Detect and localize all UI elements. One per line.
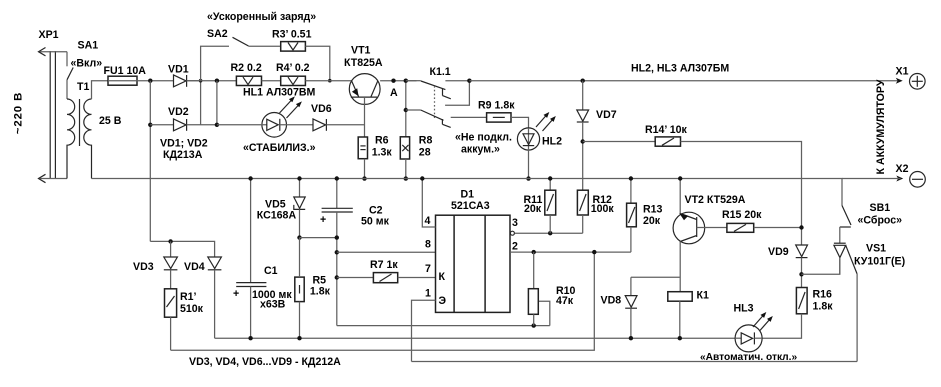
node pin4 on minus rail [420,176,424,180]
svg-text:HL2: HL2 [542,136,562,148]
svg-text:VT2 КТ529А: VT2 КТ529А [685,194,746,206]
svg-text:HL3: HL3 [734,303,754,315]
wire R14 row [583,141,656,143]
svg-text:VT1: VT1 [351,45,371,57]
wire pin 3 row [515,232,583,234]
node R10 top [532,250,536,254]
svg-text:VD3: VD3 [133,261,154,273]
svg-text:КД213А: КД213А [163,149,203,161]
node K1 bottom [678,336,682,340]
svg-text:100к: 100к [591,203,615,215]
svg-text:8: 8 [425,239,431,251]
svg-text:VD7: VD7 [596,109,617,121]
svg-text:1: 1 [425,288,431,300]
node C2 junction 237 [335,235,339,239]
relay contact K1.1 link dashed [434,86,436,118]
svg-text:VD1: VD1 [168,64,189,76]
wire link up to R10 wiper [538,301,550,325]
svg-text:SA2: SA2 [207,28,228,40]
node lower lever pivot [404,108,408,112]
resistor R15 [727,223,802,232]
svg-text:28: 28 [419,147,431,159]
resistor R14 prime [655,137,680,146]
svg-text:R8: R8 [419,135,433,147]
svg-text:47к: 47к [556,295,574,307]
svg-text:R2 0.2: R2 0.2 [231,62,262,74]
wire VT1 collector to node A [380,80,416,82]
svg-text:С1: С1 [264,265,278,277]
wire secondary top to fuse [92,81,109,99]
diode VD7 [577,81,589,191]
svg-text:R6: R6 [375,135,389,147]
connector XP1 plug lines [50,51,55,179]
capacitor C2 [322,179,353,326]
svg-text:50 мк: 50 мк [361,216,390,228]
diode VD4 [208,257,222,338]
diode VD1 [174,75,201,87]
LED HL3 [735,312,773,352]
resistor R9 [487,113,511,122]
wire R3 prime to rail [305,46,329,80]
svg-text:«Ускоренный заряд»: «Ускоренный заряд» [207,11,316,23]
node R7 junction [335,275,339,279]
wire R14 to right column [681,142,802,245]
node R13 top on minus rail [629,176,633,180]
diode VD2 [150,119,217,131]
resistor R3 prime [281,42,306,52]
resistor R10 trimmer [528,252,538,326]
svg-text:SB1: SB1 [870,202,891,214]
wire pin 1 [412,300,436,361]
node VD2 anode junction [148,123,152,127]
wire top rail to X1 [469,80,900,82]
resistor R11 [545,179,556,234]
wire fuse to rectifier node [137,80,174,82]
svg-text:1.3к: 1.3к [372,147,393,159]
resistor R8 [400,137,409,179]
svg-text:1.8к: 1.8к [310,286,331,298]
svg-text:VD6: VD6 [311,103,332,115]
wire gate rail to pin1 [412,361,858,363]
node HL1 riser top [215,79,219,83]
svg-text:R7 1к: R7 1к [370,259,398,271]
wire top rail VD1 to R2 [187,80,237,82]
svg-text:R13: R13 [643,204,663,216]
node HL2 to minus rail [526,176,530,180]
node VD5 top [297,176,301,180]
wire top mains lead with arrow [39,48,68,56]
relay coil K1 [668,292,692,302]
svg-text:D1: D1 [461,189,475,201]
resistor R2 [236,76,261,85]
node R11 bottom [548,231,552,235]
svg-text:~220 В: ~220 В [13,92,25,134]
LED HL1 [217,96,313,137]
wire VT2 base to R15 [697,227,727,229]
relay contact K1.1 upper [406,81,470,106]
node pin8 junction [335,250,339,254]
svg-text:HL1 АЛ307ВМ: HL1 АЛ307ВМ [243,87,315,99]
svg-text:VD3, VD4, VD6...VD9 - КД212А: VD3, VD4, VD6...VD9 - КД212А [189,356,341,368]
wire K1 to plus rail [679,301,681,338]
resistor R4 prime [281,76,306,85]
svg-text:«Не подкл.: «Не подкл. [455,132,512,144]
node HL1 branch on LED row [215,123,219,127]
wire bottom mains lead with arrow [39,174,68,182]
svg-text:КТ825А: КТ825А [344,57,383,69]
svg-text:7: 7 [425,263,431,275]
svg-text:А: А [390,87,398,99]
resistor R13 [627,179,637,253]
svg-text:R3’ 0.51: R3’ 0.51 [272,29,312,41]
svg-text:VS1: VS1 [866,243,886,255]
terminal X1 [896,74,925,90]
resistor R6 [358,137,367,179]
svg-text:510к: 510к [180,303,204,315]
pin 3 bubble [510,231,514,235]
wire pin 4 [422,179,435,228]
node VD3 branch [168,239,172,243]
node K1.1 lever pivot [404,79,408,83]
wire R7 row [337,277,374,279]
svg-text:VD4: VD4 [184,261,205,273]
wire R4 to VT1 emitter [305,80,351,82]
svg-text:4: 4 [425,215,431,227]
wire pin2 net bottom rail [171,252,595,350]
node C1 top on minus rail [248,176,252,180]
svg-text:R16: R16 [813,288,833,300]
diode VD6 [313,119,365,131]
capacitor C1 [236,179,266,339]
resistor R12 [577,190,588,233]
switch SB1 [840,206,851,244]
diode VD8 [625,277,680,338]
wire lower contact to R9 [451,116,487,118]
wire SA2 riser [201,46,229,80]
svg-text:2: 2 [512,241,518,253]
svg-text:х63В: х63В [260,299,286,311]
wire VS1 anode link [802,259,840,275]
transformer T1 primary winding [67,99,75,179]
node fuse/VD1/VD2 junction [148,79,152,83]
svg-text:SA1: SA1 [78,40,99,52]
svg-text:25 В: 25 В [99,115,122,127]
svg-text:ХР1: ХР1 [39,29,59,41]
thyristor VS1 [834,243,857,361]
node VD8 bottom [629,336,633,340]
node VS1 branch [799,272,803,276]
switch SA2 [233,37,281,46]
node R11 top on minus rail [548,176,552,180]
node A [391,79,395,83]
wire node A down to lower contact [405,81,407,137]
switch SA1 [67,52,73,99]
wire AC node vertical down to VD3/VD4 branch [149,81,151,242]
svg-text:R1’: R1’ [180,291,197,303]
transformer T1 secondary winding [84,99,92,179]
svg-text:К1.1: К1.1 [430,66,451,78]
resistor R7 [373,273,435,283]
fuse FU1 [108,76,137,85]
svg-text:К АККУМУЛЯТОРУ: К АККУМУЛЯТОРУ [875,79,887,174]
transistor VT2 [673,179,705,292]
comparator D1 box [436,215,511,312]
node R6 ground [362,176,366,180]
svg-text:VD8: VD8 [601,295,622,307]
svg-text:«Сброс»: «Сброс» [858,214,903,226]
diode VD9 [796,245,808,288]
wire R2 to R4 [262,80,281,82]
svg-text:Х1: Х1 [896,66,909,78]
wire pin 2 row [510,251,631,253]
svg-text:Х2: Х2 [896,163,909,175]
svg-text:КУ101Г(Е): КУ101Г(Е) [854,256,905,268]
svg-text:«СТАБИЛИЗ.»: «СТАБИЛИЗ.» [243,142,316,154]
node R5 bottom [297,336,301,340]
svg-text:521СА3: 521СА3 [451,200,490,212]
node VD5 bottom [297,235,301,239]
wire VD3 VD4 feed row [150,241,214,257]
svg-text:VD5: VD5 [265,198,286,210]
node VD7 R14 junction [581,139,585,143]
svg-text:К1: К1 [697,289,709,301]
svg-text:3: 3 [512,217,518,229]
svg-text:20к: 20к [643,215,661,227]
svg-text:+: + [320,214,326,226]
transistor VT1 [349,74,380,137]
relay contact K1.1 lower [406,110,451,127]
node top rail at x200 [199,79,203,83]
svg-text:1.8к: 1.8к [813,300,834,312]
svg-text:VD1; VD2: VD1; VD2 [160,138,208,150]
svg-text:R4’ 0.2: R4’ 0.2 [276,62,310,74]
node C1 bottom [248,336,252,340]
wire VD2 cathode riser to top rail [200,81,202,125]
node R15 right column [799,225,803,229]
svg-text:VD9: VD9 [768,246,789,258]
wire VD5 to C2 link [300,237,337,239]
node contact output on rail [467,79,471,83]
svg-text:+: + [233,288,239,300]
svg-text:HL2, HL3 АЛ307БМ: HL2, HL3 АЛ307БМ [631,63,729,75]
wire R9 to HL2 [511,117,529,128]
node R3 bypass rejoins rail [328,79,332,83]
node VD7 top [581,79,585,83]
diode VD3 [164,241,178,288]
wire pin8 row [337,251,436,253]
resistor R5 [295,238,304,339]
svg-text:Т1: Т1 [77,81,89,93]
svg-text:КС168А: КС168А [257,210,297,222]
svg-text:R15 20к: R15 20к [722,209,762,221]
wire HL1 branch riser [216,81,218,125]
resistor R1 prime [165,289,177,350]
node pin2 link [592,250,596,254]
svg-text:20к: 20к [524,203,542,215]
svg-text:VD2: VD2 [168,106,189,118]
wire pin8 net to lower link [337,325,550,327]
svg-text:FU1 10A: FU1 10A [104,65,147,77]
svg-text:R9 1.8к: R9 1.8к [478,100,515,112]
node R8 ground [404,176,408,180]
LED HL2 [517,112,555,179]
wire minus rail [92,179,843,206]
node C2 top on minus rail [335,176,339,180]
terminal X2 [842,172,925,188]
resistor R16 [762,288,807,339]
svg-text:R14’ 10к: R14’ 10к [645,124,688,136]
zener VD5 [294,179,305,238]
transformer T1 core [79,99,81,146]
node VT2 emitter on minus rail [678,176,682,180]
svg-text:аккум.»: аккум.» [461,144,500,156]
svg-text:К: К [439,271,446,283]
svg-text:«Вкл»: «Вкл» [71,58,103,70]
node R10 bottom on link [532,323,536,327]
svg-text:Э: Э [439,295,447,307]
wire plus rail y338 [215,337,736,339]
